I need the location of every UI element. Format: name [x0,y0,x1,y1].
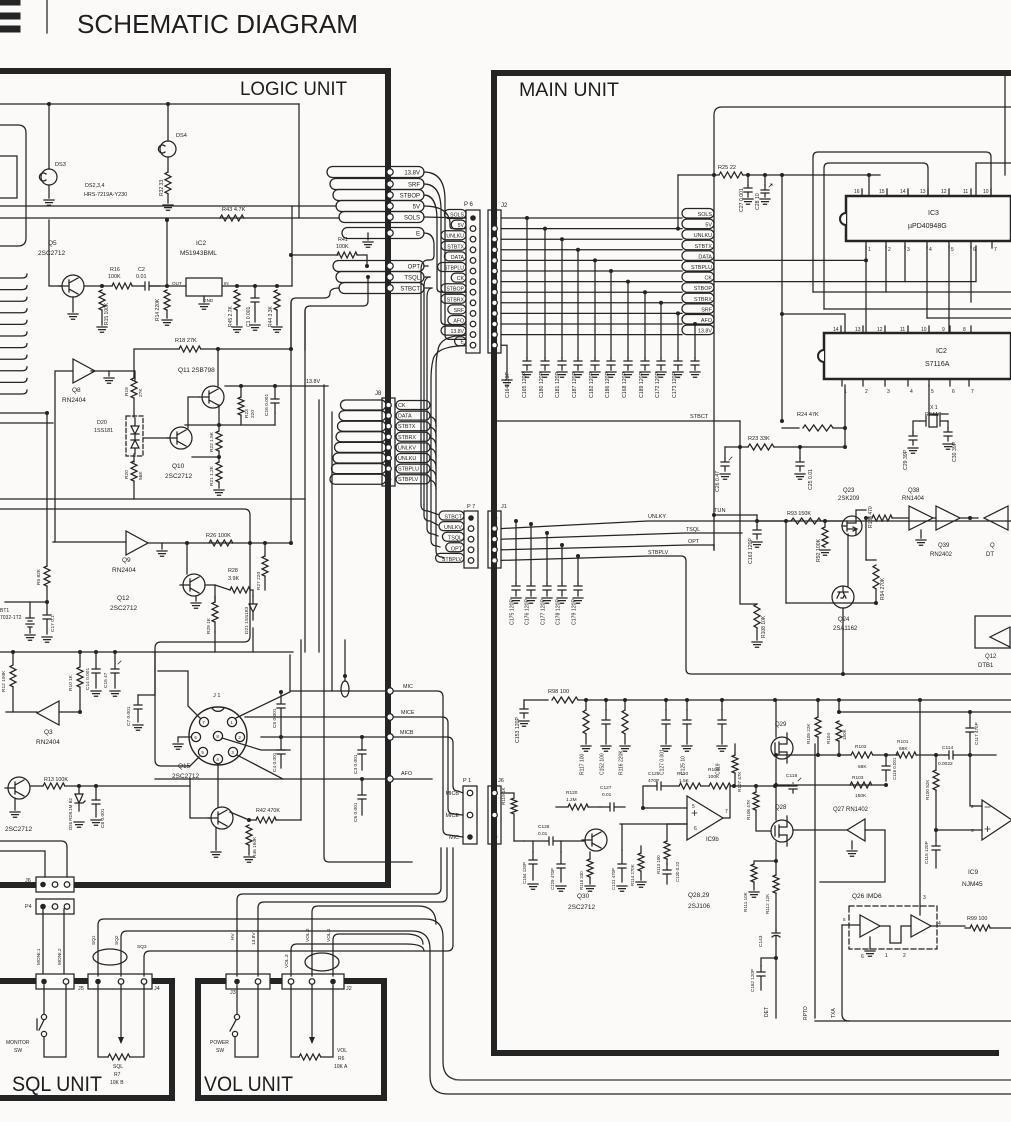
capacitor C30 39P [947,421,949,428]
P7 pin STBCT [468,515,474,521]
junction R15 [100,284,104,288]
svg-text:C28 10: C28 10 [755,193,761,210]
svg-text:IC9b: IC9b [706,837,719,843]
svg-text:OPT: OPT [451,546,463,552]
svg-text:3: 3 [887,389,890,395]
svg-text:R28: R28 [228,568,238,574]
svg-text:1.2M: 1.2M [566,797,577,803]
svg-text:SQL: SQL [113,1064,123,1070]
wire 5V from regulator [291,206,293,286]
svg-text:C115 120P: C115 120P [924,841,929,864]
loop symbol [341,681,349,697]
svg-text:VOL UNIT: VOL UNIT [204,1073,293,1096]
svg-text:R25 22: R25 22 [718,165,736,171]
svg-text:STBPLV: STBPLV [398,477,419,483]
svg-text:NJM45: NJM45 [962,881,983,888]
wire HV [237,848,441,976]
wire bottom long h1021 [815,1020,1011,1022]
svg-text:0.01: 0.01 [136,274,147,280]
svg-text:OPT: OPT [688,539,700,545]
svg-text:15: 15 [879,189,885,195]
wire TUN [712,513,716,517]
capacitor C29 39P [913,421,920,432]
wire left nets [0,498,305,500]
svg-text:R18 27K: R18 27K [175,338,197,344]
svg-text:C164 120P: C164 120P [505,372,511,398]
svg-text:Q29: Q29 [775,722,787,728]
wire MICE [245,717,463,815]
svg-text:C172 120P: C172 120P [655,372,661,398]
J8 pin UNLKV [386,445,392,451]
junction rail points [584,698,588,702]
J1 pin 2 [235,732,244,741]
capacitor C175 120P [514,519,518,523]
J8 label STBPLU [396,464,430,473]
svg-text:R20: R20 [124,470,130,479]
P7 pin OPT [468,547,474,553]
svg-text:5: 5 [931,389,934,395]
potentiometer SQL R7 10KB [98,985,108,1057]
J1 pin UNLKV [492,526,498,532]
J4 pin 2 [118,979,124,985]
svg-text:STBTX: STBTX [695,244,713,250]
power switch [236,985,238,1014]
svg-text:R104: R104 [826,733,831,744]
transistor Q39 RN2402 (buffer) [936,506,960,530]
capacitor C163 120P [755,519,759,523]
svg-text:R98 100: R98 100 [548,689,569,695]
wire OPT down [713,545,715,550]
junction DS3 [47,102,51,106]
svg-text:C16 0.001: C16 0.001 [264,394,270,416]
wire R18 row [179,346,201,352]
monitor sw wires [44,985,66,1057]
J2 pin STBRX [492,300,498,306]
svg-text:R7: R7 [114,1072,121,1078]
junction rail [712,173,716,177]
ribbon wire [0,309,27,313]
resistor R108 10K [754,604,760,628]
svg-text:6: 6 [952,389,955,395]
svg-text:Q23: Q23 [843,488,855,494]
bus wire right top [976,163,1011,196]
svg-text:68K: 68K [899,746,908,752]
capacitor C154 120P [529,852,537,880]
svg-text:C5 0.001: C5 0.001 [272,708,278,728]
left edge stadium lane [0,125,26,246]
svg-text:IC2: IC2 [196,240,207,247]
vertical bundle wires [324,385,412,862]
signal lane 13.8V [327,167,424,178]
wire cross h2 [824,308,1011,310]
svg-text:AFO: AFO [701,318,712,324]
svg-text:R117 100: R117 100 [580,753,586,775]
svg-text:7: 7 [971,389,974,395]
svg-text:J5: J5 [78,986,84,992]
svg-text:C152 100: C152 100 [600,753,606,775]
svg-text:27K: 27K [138,388,144,397]
svg-text:C29 39P: C29 39P [903,449,909,470]
P6 pin CK [470,279,476,285]
svg-text:11: 11 [900,327,905,333]
svg-text:Q3: Q3 [44,729,53,736]
signal lane SRF [330,179,424,190]
svg-text:AFO: AFO [453,319,464,325]
svg-text:C127 0.001: C127 0.001 [660,749,666,775]
svg-text:STBPLU: STBPLU [444,266,464,272]
J1 pin 7 [199,717,208,726]
resistor R19 27K [131,378,137,398]
svg-text:MICE: MICE [401,710,415,716]
svg-text:SQ3: SQ3 [137,944,147,950]
svg-text:2SC2712: 2SC2712 [165,473,192,480]
border feedthrough SRF [387,181,393,187]
wire crystal junction [929,413,948,415]
svg-text:68K: 68K [858,764,867,770]
label box STBRX main [682,293,714,303]
wire 13.8V vol [258,848,447,976]
MAIN UNIT border [494,73,1011,1053]
svg-text:C27 0.001: C27 0.001 [739,188,745,212]
label box UNLKU main [682,230,714,240]
svg-text:10K B: 10K B [110,1080,124,1086]
border feedthrough 13.8V [387,169,393,175]
svg-text:Q28,29: Q28,29 [688,892,710,899]
svg-text:2: 2 [971,804,974,810]
svg-text:UNLKV: UNLKV [398,445,416,451]
J1 pin 4 [213,754,222,763]
P7 pin STBPLV [468,558,474,564]
svg-text:C117 470P: C117 470P [974,722,979,745]
svg-text:SRF: SRF [701,307,712,313]
Q26 internal wires [880,926,911,943]
svg-text:C129 470P: C129 470P [550,868,555,890]
svg-text:Q30: Q30 [577,893,590,900]
junction R14 [165,284,169,288]
P7 label STBCT [439,511,464,520]
wire Q5 emitter ground [72,297,74,312]
wire Q5 base up [49,220,62,286]
svg-text:R94 270K: R94 270K [880,577,886,600]
J8 label STBRX [396,432,430,441]
capacitor C3 0.001 [360,735,364,739]
svg-text:TSQL: TSQL [448,536,462,542]
svg-text:UNLKU: UNLKU [446,234,464,240]
resistor R29 1K [212,602,218,622]
svg-text:IN: IN [224,281,229,286]
svg-text:Q26 IMD6: Q26 IMD6 [852,893,882,900]
resistor R44 3.3K [274,290,280,310]
wire SQ2 [121,931,1011,1094]
connector J2 vol [282,974,344,989]
wire STBTX main [501,249,682,251]
svg-text:E: E [461,340,465,346]
svg-text:R23 33K: R23 33K [748,436,770,442]
wire STBRX main [501,302,682,304]
svg-text:100K: 100K [336,244,349,250]
svg-text:R42 470K: R42 470K [256,808,280,814]
J6 main pin 2 [492,812,498,818]
svg-text:C3 0.001: C3 0.001 [353,754,359,774]
wire R25 net [678,174,718,176]
svg-text:J2: J2 [501,203,508,209]
svg-text:C168 120P: C168 120P [622,372,628,398]
border feedthrough E [387,230,393,236]
power sw wires [235,985,258,1057]
label box 13.8V main [682,325,714,335]
wire VOL.2 [312,906,436,976]
svg-text:R12 100K: R12 100K [1,670,7,692]
resistor R111 10K [775,842,777,861]
J1 pin 1 [227,717,236,726]
border feedthrough STBOP [387,192,393,198]
J2 pin 13.8V [492,332,498,338]
svg-text:Q9: Q9 [122,557,131,564]
svg-text:Q38: Q38 [908,488,920,494]
P6 pin UNLKU [470,236,476,242]
svg-text:C7 0.001: C7 0.001 [126,706,132,726]
svg-text:R45 2.7K: R45 2.7K [228,305,234,327]
J6 logic pin 3 [64,882,70,888]
svg-text:R102: R102 [855,744,867,750]
P6 pin STBOP [470,289,476,295]
svg-text:3: 3 [971,828,974,834]
capacitor C165 120P [543,227,547,231]
svg-text:R108 10K: R108 10K [761,615,767,638]
IC3 uPD40948G [846,196,1011,241]
capacitor C129 470P [557,852,565,882]
svg-text:14: 14 [900,189,906,195]
J2 pin SRF [492,311,498,317]
svg-text:IC2: IC2 [936,348,947,355]
svg-text:VOL.3: VOL.3 [284,954,290,968]
svg-text:SW: SW [14,1048,22,1054]
signal lane SOLS [339,212,424,223]
wire top rail logic [0,103,299,105]
svg-text:VOL: VOL [337,1048,347,1054]
svg-text:SRF: SRF [408,183,420,189]
svg-text:2SJ106: 2SJ106 [688,903,710,910]
svg-text:IC3: IC3 [928,210,939,217]
resistor R92 100K [823,519,827,523]
wire Q15 base [190,778,211,818]
svg-text:SRF: SRF [454,308,464,314]
svg-text:R10 1K: R10 1K [68,674,74,691]
svg-text:C116 0.001: C116 0.001 [892,757,897,780]
wire J2 pin E to ground [501,345,507,378]
LOGIC UNIT border [0,71,388,885]
wire IC2 pin5 to crystal [928,385,930,414]
signal lane TSQL [336,272,424,283]
border feedthrough STBCT [387,285,393,291]
svg-text:150K: 150K [842,728,847,740]
capacitor C5 0.001 [279,690,283,694]
svg-text:R14 220K: R14 220K [155,298,161,321]
J2 pin UNLKU [492,236,498,242]
svg-text:C189 120P: C189 120P [639,372,645,398]
svg-text:R113 100: R113 100 [656,855,661,874]
svg-text:2SK209: 2SK209 [838,496,860,502]
svg-text:RN1404: RN1404 [902,496,925,502]
wire audio in rows [620,824,687,850]
capacitor C8 0.001 [94,784,98,788]
wire Q10 collector to Q11 base [188,397,199,428]
svg-text:VOL.2: VOL.2 [305,928,311,942]
svg-text:UNLKU: UNLKU [694,233,712,239]
wire MIC [290,691,463,837]
svg-text:7032-1T2: 7032-1T2 [0,615,22,621]
svg-text:C178 120P: C178 120P [556,599,562,625]
svg-text:J 1: J 1 [213,693,220,699]
svg-text:RN2404: RN2404 [36,739,60,746]
J1 pin wires [158,671,200,718]
wire vertical bundle x301 [300,640,302,820]
logo letter fragment [0,2,17,29]
svg-text:Q27 RN1402: Q27 RN1402 [833,807,869,813]
capacitor C7 0.001 [134,695,142,722]
wire h785 [776,784,886,786]
potentiometer VOL R6 10KA [291,985,299,1057]
svg-text:R100 82K: R100 82K [925,779,930,800]
svg-text:150K: 150K [855,793,867,799]
wire CK main [501,281,682,283]
J2 pin AFO [492,321,498,327]
svg-text:STBOP: STBOP [694,286,713,292]
svg-text:MONI.1: MONI.1 [36,948,42,965]
svg-text:R43 4.7K: R43 4.7K [222,207,246,213]
svg-text:P 6: P 6 [464,202,474,208]
svg-text:14: 14 [833,327,839,333]
wire 5V to R25 [677,175,679,229]
svg-text:MAIN UNIT: MAIN UNIT [519,79,619,101]
resistor R107 47K [732,755,738,773]
wire h755 [776,754,851,756]
resistor R116 220K [624,700,626,710]
svg-text:C15 47: C15 47 [103,672,109,688]
svg-text:R103: R103 [852,775,864,781]
J2 pin CK [492,279,498,285]
resistor R114 270K [638,853,644,871]
J2 pin STBPLU [492,268,498,274]
svg-text:C173 120P: C173 120P [672,372,678,398]
svg-text:0.0022: 0.0022 [938,761,953,767]
J8 label CK [396,401,430,410]
svg-text:R16: R16 [110,267,120,273]
wire lane to J8 STBTX [338,421,387,431]
svg-text:R115 330: R115 330 [579,871,584,890]
svg-text:HV: HV [230,933,236,940]
wire IC9b out [723,786,730,818]
svg-text:2SC2712: 2SC2712 [38,250,65,257]
junction DS4 [166,102,170,106]
ribbon wire [0,286,27,290]
svg-text:STBRX: STBRX [694,297,712,303]
J1 pin 6 [191,732,200,741]
J2 pin E [492,342,498,348]
J4 pin 3 [141,979,147,985]
wire Q23 drain [856,510,866,518]
svg-text:D21 1SS183: D21 1SS183 [244,606,250,634]
svg-text:STBRX: STBRX [447,297,465,303]
svg-text:VOL.1: VOL.1 [326,928,332,942]
J1 pin STBPLV [492,558,498,564]
wire STBPLV main [501,556,1011,674]
capacitor C162 120P [774,956,778,960]
svg-text:1SS181: 1SS181 [94,428,113,434]
IC2 S7116A [824,333,1011,379]
opamp IC9b [687,796,723,840]
wire DATA main [501,259,682,261]
svg-text:6: 6 [694,826,697,832]
svg-text:C182 120P: C182 120P [589,372,595,398]
diode D26 RD9.1MB2 [77,784,81,788]
svg-text:2SA1162: 2SA1162 [833,626,858,632]
ribbon wire [0,367,27,371]
J6 logic pin 2 [52,882,58,888]
svg-text:P 7: P 7 [467,504,475,510]
bus wire IC3 left inner [824,163,928,309]
P7 label TSQL [442,532,464,541]
J1 pin 3 [228,747,237,756]
resistor R14 220K [164,290,170,310]
J2 pin STBTX [492,247,498,253]
svg-text:C4 0.001: C4 0.001 [272,752,278,772]
wire STBCT lane left [291,288,339,350]
wire Q23 source to Q24 [847,534,849,586]
svg-text:C143: C143 [758,935,764,947]
wire VOL.3 [291,944,424,976]
signal lane E [342,228,424,239]
svg-text:DATA: DATA [451,255,465,261]
wire IC3 feed [780,173,784,177]
ribbon wire [0,344,27,348]
border feedthrough TSQL [387,274,393,280]
wire Q8 input [55,371,72,542]
wire gate net h786 [731,785,789,787]
J1 pin STBCT [492,515,498,521]
svg-text:J6: J6 [498,778,504,784]
J6 logic pin 1 [40,882,46,888]
wire IC2 pin1 down [844,385,846,447]
svg-text:TSQL: TSQL [686,527,700,533]
resistor R117 100 [585,700,587,710]
svg-text:2: 2 [903,953,906,959]
J2 pin SOLS [492,215,498,221]
wire UNLKV main [501,521,1011,529]
svg-text:DATA: DATA [398,414,412,420]
svg-text:C127: C127 [600,785,612,791]
svg-text:CK: CK [457,276,465,282]
J8 label UNLKV [396,443,430,452]
svg-text:C179 120P: C179 120P [572,599,578,625]
resistor R45 2.7K [234,290,240,310]
resistor R5 82K [44,566,50,586]
bus wire IC3 left outer [813,152,991,292]
svg-text:R101: R101 [897,739,909,745]
svg-text:8: 8 [963,327,966,333]
label box STBTX main [682,240,714,250]
svg-text:C175 120P: C175 120P [510,599,516,625]
connector J5 [36,974,74,989]
buffer at right edge [984,506,1008,530]
wire lane to J8 UNLKU [333,453,386,463]
svg-text:C2: C2 [138,267,145,273]
ribbon wire [0,274,27,278]
capacitor C15 47 [113,650,117,654]
svg-text:R46 150K: R46 150K [252,836,258,858]
wire SQ1 [98,919,1011,1080]
svg-text:DS3: DS3 [55,162,66,168]
